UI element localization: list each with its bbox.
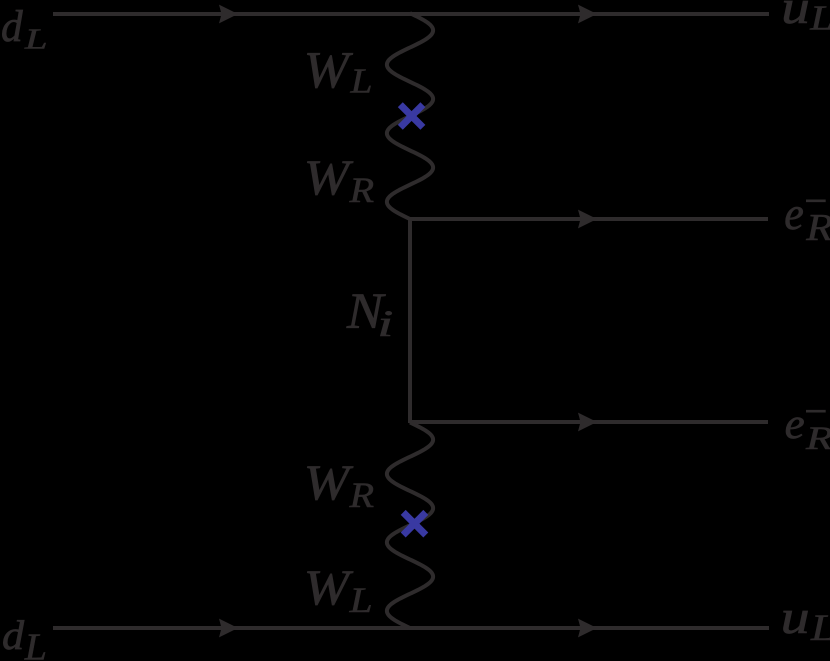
svg-text:e: e bbox=[784, 188, 804, 240]
svg-text:W: W bbox=[304, 42, 354, 99]
svg-text:L: L bbox=[809, 0, 830, 37]
svg-text:i: i bbox=[377, 303, 393, 344]
svg-text:W: W bbox=[304, 560, 354, 615]
svg-text:W: W bbox=[304, 150, 354, 205]
svg-text:R: R bbox=[805, 420, 830, 456]
svg-text:R: R bbox=[348, 170, 374, 210]
svg-text:R: R bbox=[805, 207, 830, 249]
svg-text:L: L bbox=[349, 62, 372, 101]
svg-text:d: d bbox=[1, 1, 23, 51]
svg-text:L: L bbox=[810, 607, 830, 648]
svg-text:L: L bbox=[24, 24, 48, 55]
svg-text:W: W bbox=[304, 455, 354, 510]
svg-text:u: u bbox=[781, 591, 810, 644]
svg-text:e: e bbox=[785, 400, 805, 448]
svg-text:R: R bbox=[348, 475, 374, 515]
svg-text:L: L bbox=[348, 580, 372, 620]
svg-text:u: u bbox=[781, 0, 810, 34]
svg-text:d: d bbox=[2, 612, 25, 658]
svg-text:L: L bbox=[24, 626, 47, 661]
